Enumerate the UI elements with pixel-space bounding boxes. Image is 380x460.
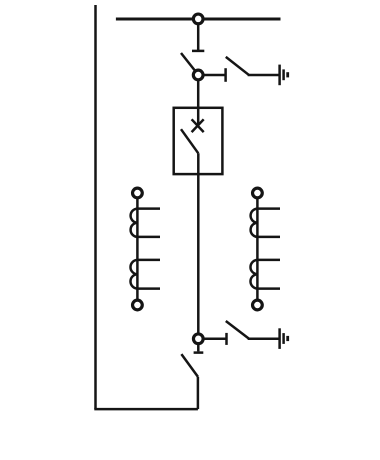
transformer T2 bottom terminal circle [253,300,263,310]
breaker X contact mark [192,119,204,132]
node: busbar junction circle [193,14,203,24]
circuit breaker box [174,108,223,174]
ground symbol (lower earthing switch) [280,328,288,349]
wire: earthing switch to ground [248,74,279,77]
transformer T1 bottom terminal circle [133,300,143,310]
transformer T2 tap wires [257,209,280,289]
transformer T2 winding 1 (two arcs) [251,209,258,237]
earthing switch E1 fixed contact tick [224,68,227,82]
wire: lower node to earthing-switch contact [198,338,226,341]
node: disconnector pivot circle [193,70,203,80]
wire: disconnector circle to earthing-switch contact [198,74,226,77]
transformer T1 (left) top terminal circle [133,188,143,198]
wire: stem from busbar node down to fixed contact [197,19,200,50]
transformer T1 tap wires [137,209,160,289]
transformer T2 (right) top terminal circle [253,188,263,198]
breaker switch blade (open) [181,129,198,153]
earthing switch E2 blade (open) [226,321,249,339]
wire: blade tip down to bottom return [197,377,200,409]
transformer T1 winding 2 (two arcs) [130,260,137,289]
busbar (top horizontal) [116,18,281,21]
wire: breaker to lower node [197,153,200,338]
disconnector Q1 blade (open) [181,53,198,75]
earthing switch E2 fixed contact tick [225,333,228,345]
ground symbol (upper earthing switch) [280,65,288,86]
transformer T2 core vertical wire [256,193,259,305]
earthing switch E1 blade (open) [226,57,249,75]
node: cable disconnector pivot circle [193,334,203,344]
transformer T2 winding 2 (two arcs) [250,260,257,289]
wire: bottom return horizontal [94,408,198,411]
disconnector Q2 blade (open) [181,354,198,377]
wire: left cubicle border vertical [94,5,97,409]
disconnector Q1 fixed contact bar [192,50,204,53]
transformer T1 core vertical wire [136,193,139,305]
transformer T1 winding 1 (two arcs) [131,209,138,237]
wire: earthing switch to ground [248,338,279,341]
wire: stem below node to fixed contact [197,343,200,351]
wire: disconnector down into breaker box [197,75,200,126]
disconnector Q2 fixed contact bar [194,351,204,354]
